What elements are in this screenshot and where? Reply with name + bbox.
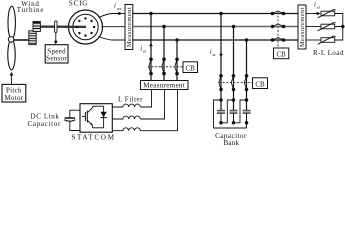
- wire SCIG phase b to measurement: [102, 26, 126, 28]
- svg-text:Measurement: Measurement: [299, 7, 306, 47]
- inductor L filter 3: [112, 128, 140, 131]
- wire statcom tap 3: [175, 38, 179, 80]
- svg-text:Capacitor: Capacitor: [28, 120, 62, 128]
- breaker CB2 box: [253, 78, 268, 89]
- label current i_rl: [314, 1, 320, 10]
- breaker CB3 contacts phase A: [271, 11, 286, 15]
- wind turbine blade top: [8, 6, 15, 39]
- capacitor bank C3: [243, 111, 251, 128]
- wire load phase A with arrow: [306, 12, 321, 16]
- label current i_sc: [210, 48, 216, 57]
- wire bus phase C: [133, 39, 298, 41]
- wire bus phase A: [133, 13, 298, 15]
- svg-text:CB: CB: [255, 81, 265, 89]
- wire capacitor tap B: [232, 25, 236, 110]
- speed sensor box: [45, 45, 68, 63]
- label R-L Load: [313, 49, 344, 57]
- label STATCOM: [71, 133, 115, 141]
- breaker CB2 contacts: [219, 74, 249, 91]
- breaker CB3 contacts phase C: [271, 38, 286, 42]
- generator SCIG: [66, 10, 103, 44]
- wire dc link: [70, 110, 80, 130]
- svg-text:CB: CB: [186, 65, 196, 73]
- measurement box statcom: [141, 81, 189, 90]
- wire capacitor tap A: [219, 12, 223, 110]
- svg-text:Measurement: Measurement: [143, 82, 185, 90]
- resistor R-L load 3: [318, 36, 336, 44]
- capacitor bank C2: [230, 111, 238, 123]
- node capacitor A bottom: [219, 121, 223, 125]
- resistor R-L load 2: [318, 23, 336, 31]
- diode D1: [100, 106, 106, 128]
- wire delta link C top to B bottom: [234, 100, 247, 123]
- arrow sensor to speed sensor box: [54, 33, 58, 45]
- svg-text:SCIG: SCIG: [69, 0, 88, 8]
- svg-text:sc: sc: [212, 52, 216, 57]
- label current i_st: [140, 44, 146, 53]
- igbt Q1: [82, 106, 93, 128]
- wire load neutral: [335, 14, 345, 41]
- breaker CB1 box: [183, 62, 198, 73]
- inductor L filter 1: [112, 104, 140, 107]
- svg-text:ws: ws: [117, 6, 122, 11]
- statcom converter box: [80, 104, 112, 133]
- label Wind Turbine: [17, 0, 45, 14]
- wire capacitor tap C: [245, 38, 249, 110]
- node capacitor C bottom: [245, 121, 249, 125]
- wire low-speed shaft: [14, 39, 29, 41]
- wire SCIG phase a to measurement: [99, 12, 126, 18]
- label current i_ws: [114, 2, 122, 11]
- node capacitor C top: [245, 98, 249, 102]
- wire high-speed shaft: [40, 25, 85, 27]
- svg-text:Bank: Bank: [224, 139, 240, 146]
- wire converter internal rails: [93, 106, 104, 128]
- wire L filter riser 2: [140, 90, 164, 120]
- gearbox lower gear: [29, 31, 36, 45]
- label DC Link Capacitor: [28, 113, 62, 129]
- wire L filter riser 3: [140, 90, 177, 131]
- svg-text:R-L Load: R-L Load: [313, 49, 344, 57]
- capacitor dc link: [64, 118, 75, 121]
- breaker CB3 box: [274, 48, 289, 59]
- capacitor bank C1: [217, 111, 225, 123]
- node capacitor B top: [232, 98, 236, 102]
- svg-text:STATCOM: STATCOM: [71, 133, 115, 141]
- wire L filter riser 1: [140, 90, 151, 108]
- wind turbine blade bottom: [8, 39, 15, 69]
- arrow pitch motor to blade: [10, 72, 14, 85]
- breaker CB2 dashed link: [219, 82, 253, 84]
- svg-text:CB: CB: [277, 51, 287, 59]
- svg-text:Measurement: Measurement: [126, 7, 133, 47]
- wire delta link A top to C bottom: [214, 100, 247, 128]
- wire load phase C: [306, 39, 321, 41]
- node capacitor A top: [219, 98, 223, 102]
- label Capacitor Bank: [215, 132, 247, 147]
- turbine hub: [8, 37, 14, 43]
- wire delta link B top to A bottom: [221, 100, 234, 123]
- svg-text:L Filter: L Filter: [118, 95, 143, 103]
- breaker CB3 dashed link: [277, 12, 279, 48]
- node capacitor B bottom: [232, 121, 236, 125]
- pitch motor box: [2, 84, 26, 102]
- inductor L filter 2: [112, 116, 140, 119]
- wire bus phase B: [133, 26, 298, 28]
- measurement box load: [298, 5, 306, 49]
- svg-text:Sensor: Sensor: [46, 55, 67, 63]
- label SCIG: [69, 0, 88, 8]
- wire statcom tap 1: [149, 12, 153, 81]
- svg-text:Motor: Motor: [4, 94, 23, 102]
- arrow current i_st: [149, 43, 153, 47]
- resistor R-L load 1: [318, 10, 336, 18]
- label L Filter: [118, 95, 143, 103]
- measurement box stator: [125, 5, 133, 50]
- arrow current i_sc: [219, 54, 223, 58]
- wire statcom tap 2: [162, 25, 166, 81]
- svg-text:Turbine: Turbine: [17, 6, 45, 14]
- breaker CB1 contacts: [149, 58, 179, 76]
- breaker CB1 dashed link: [148, 66, 183, 68]
- wire SCIG phase c to measurement: [99, 37, 126, 41]
- gearbox upper gear: [33, 22, 40, 32]
- breaker CB3 contacts phase B: [271, 24, 286, 28]
- wire load phase B: [306, 26, 321, 28]
- speed sensor disc: [55, 21, 57, 33]
